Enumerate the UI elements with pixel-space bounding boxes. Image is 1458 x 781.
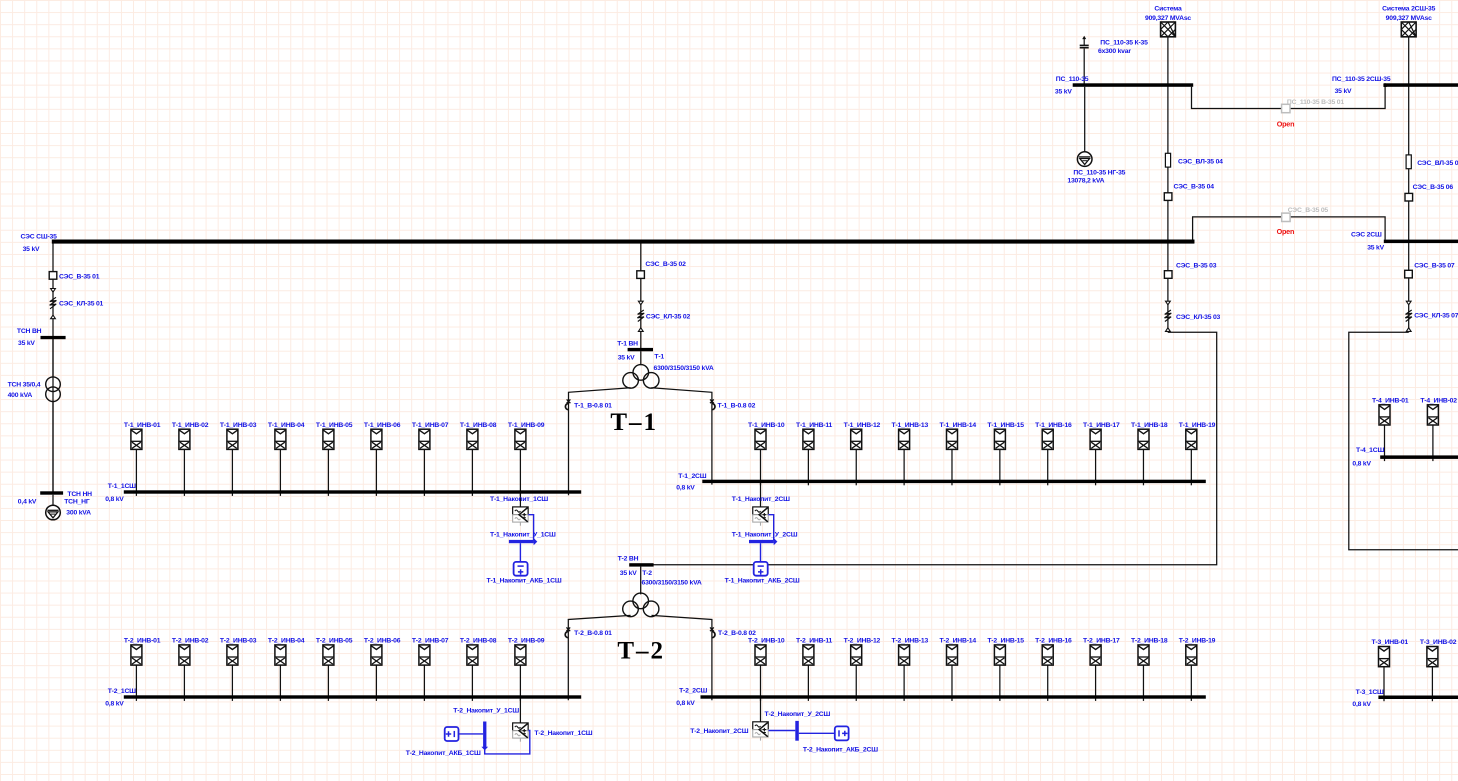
svg-text:Т-1_Накопит_1СШ: Т-1_Накопит_1СШ: [490, 496, 548, 503]
svg-text:Т-1 ВН: Т-1 ВН: [617, 340, 638, 347]
svg-text:ПС_110-35 2СШ-35: ПС_110-35 2СШ-35: [1332, 76, 1391, 83]
svg-text:СЭС_В-35 06: СЭС_В-35 06: [1413, 184, 1454, 191]
svg-text:0,8 kV: 0,8 kV: [1352, 461, 1371, 468]
svg-text:Т-2_ИНВ-08: Т-2_ИНВ-08: [460, 638, 497, 645]
svg-text:СЭС_КЛ-35 07: СЭС_КЛ-35 07: [1414, 313, 1458, 320]
svg-text:Т-1_ИНВ-17: Т-1_ИНВ-17: [1083, 422, 1120, 429]
svg-text:Т-2_ИНВ-03: Т-2_ИНВ-03: [220, 638, 257, 645]
svg-text:35 kV: 35 kV: [1335, 88, 1352, 95]
svg-text:13078,2 kVA: 13078,2 kVA: [1067, 178, 1104, 185]
svg-text:35 kV: 35 kV: [620, 570, 637, 577]
svg-text:6300/3150/3150 kVA: 6300/3150/3150 kVA: [642, 580, 702, 587]
svg-text:СЭС_КЛ-35 03: СЭС_КЛ-35 03: [1176, 314, 1221, 321]
svg-text:35 kV: 35 kV: [618, 354, 635, 361]
svg-text:Т-2_ИНВ-15: Т-2_ИНВ-15: [987, 638, 1024, 645]
svg-text:Т-1_ИНВ-05: Т-1_ИНВ-05: [316, 422, 353, 429]
svg-text:Т-1_ИНВ-13: Т-1_ИНВ-13: [892, 422, 929, 429]
svg-text:СЭС_ВЛ-35 04: СЭС_ВЛ-35 04: [1178, 159, 1223, 166]
svg-text:СЭС_В-35 05: СЭС_В-35 05: [1288, 207, 1329, 214]
svg-text:Т-2_ИНВ-13: Т-2_ИНВ-13: [892, 638, 929, 645]
svg-text:Т-2_В-0.8 01: Т-2_В-0.8 01: [574, 630, 612, 637]
svg-text:ПС_110-35 В-35 01: ПС_110-35 В-35 01: [1287, 99, 1344, 106]
svg-text:0,8 kV: 0,8 kV: [676, 700, 695, 707]
svg-text:СЭС_КЛ-35 02: СЭС_КЛ-35 02: [646, 314, 691, 321]
svg-text:СЭС_В-35 07: СЭС_В-35 07: [1414, 263, 1455, 270]
svg-text:Т-1_ИНВ-12: Т-1_ИНВ-12: [844, 422, 881, 429]
svg-text:Т-3_ИНВ-01: Т-3_ИНВ-01: [1371, 639, 1408, 646]
svg-text:Т-1_Накопит_У_2СШ: Т-1_Накопит_У_2СШ: [732, 532, 798, 539]
svg-text:909,327 MVAsc: 909,327 MVAsc: [1145, 15, 1191, 22]
svg-text:Т-2_ИНВ-10: Т-2_ИНВ-10: [748, 638, 785, 645]
svg-text:Т-2_ИНВ-01: Т-2_ИНВ-01: [124, 638, 161, 645]
svg-text:Т-2_ИНВ-14: Т-2_ИНВ-14: [939, 638, 976, 645]
svg-text:Т-2_ИНВ-05: Т-2_ИНВ-05: [316, 638, 353, 645]
svg-text:СЭС_В-35 02: СЭС_В-35 02: [645, 261, 686, 268]
svg-text:Т-1_Накопит_АКБ_2СШ: Т-1_Накопит_АКБ_2СШ: [725, 578, 800, 585]
svg-text:Т-2_Накопит_2СШ: Т-2_Накопит_2СШ: [690, 728, 748, 735]
svg-text:Т-2_ИНВ-09: Т-2_ИНВ-09: [508, 638, 545, 645]
svg-text:Т-1_В-0.8 01: Т-1_В-0.8 01: [574, 402, 612, 409]
svg-text:ПС_110-35 К-35: ПС_110-35 К-35: [1100, 40, 1148, 47]
svg-text:Т-2_2СШ: Т-2_2СШ: [679, 688, 707, 695]
svg-text:Т-1_Накопит_2СШ: Т-1_Накопит_2СШ: [732, 496, 790, 503]
svg-text:Т-1_ИНВ-02: Т-1_ИНВ-02: [172, 422, 209, 429]
svg-text:Т-2_ИНВ-11: Т-2_ИНВ-11: [796, 638, 833, 645]
svg-text:Т-1_1СШ: Т-1_1СШ: [108, 483, 136, 490]
svg-text:Т-2_ИНВ-16: Т-2_ИНВ-16: [1035, 638, 1072, 645]
svg-text:СЭС_КЛ-35 01: СЭС_КЛ-35 01: [59, 300, 104, 307]
svg-text:0,8 kV: 0,8 kV: [1352, 701, 1371, 708]
svg-text:Т-4_ИНВ-02: Т-4_ИНВ-02: [1420, 397, 1457, 404]
svg-text:Т-2_ИНВ-06: Т-2_ИНВ-06: [364, 638, 401, 645]
svg-text:Т-2_1СШ: Т-2_1СШ: [108, 688, 136, 695]
svg-text:Т-3_ИНВ-02: Т-3_ИНВ-02: [1420, 639, 1457, 646]
svg-text:Т–1: Т–1: [610, 409, 658, 436]
svg-text:0,8 kV: 0,8 kV: [105, 496, 124, 503]
svg-text:Т-2 ВН: Т-2 ВН: [618, 556, 639, 563]
svg-text:6300/3150/3150 kVA: 6300/3150/3150 kVA: [654, 365, 714, 372]
svg-text:Т-2_Накопит_АКБ_2СШ: Т-2_Накопит_АКБ_2СШ: [803, 747, 878, 754]
svg-text:Система: Система: [1154, 5, 1182, 12]
svg-text:Т-1_ИНВ-15: Т-1_ИНВ-15: [987, 422, 1024, 429]
svg-text:СЭС_В-35 04: СЭС_В-35 04: [1174, 184, 1215, 191]
svg-text:СЭС 2СШ: СЭС 2СШ: [1351, 232, 1382, 239]
svg-text:СЭС СШ-35: СЭС СШ-35: [21, 234, 58, 241]
svg-text:СЭС_В-35 03: СЭС_В-35 03: [1176, 263, 1217, 270]
svg-text:Т-1_ИНВ-01: Т-1_ИНВ-01: [124, 422, 161, 429]
svg-text:Т-2_Накопит_АКБ_1СШ: Т-2_Накопит_АКБ_1СШ: [406, 750, 481, 757]
svg-text:Т–2: Т–2: [617, 638, 665, 665]
svg-text:Т-2_ИНВ-12: Т-2_ИНВ-12: [844, 638, 881, 645]
svg-text:Т-2_ИНВ-04: Т-2_ИНВ-04: [268, 638, 305, 645]
svg-text:0,8 kV: 0,8 kV: [676, 485, 695, 492]
svg-text:Т-1_ИНВ-04: Т-1_ИНВ-04: [268, 422, 305, 429]
svg-text:Т-1_ИНВ-03: Т-1_ИНВ-03: [220, 422, 257, 429]
svg-text:Т-2_ИНВ-18: Т-2_ИНВ-18: [1131, 638, 1168, 645]
svg-text:ТСН 35/0,4: ТСН 35/0,4: [8, 381, 41, 388]
svg-text:ПС_110-35 НГ-35: ПС_110-35 НГ-35: [1073, 169, 1125, 176]
svg-text:ТСН_НГ: ТСН_НГ: [64, 499, 90, 506]
svg-text:Т-1_Накопит_У_1СШ: Т-1_Накопит_У_1СШ: [490, 532, 556, 539]
svg-text:35 kV: 35 kV: [1367, 244, 1384, 251]
svg-text:Т-1_В-0.8 02: Т-1_В-0.8 02: [718, 402, 756, 409]
svg-text:Т-1_ИНВ-11: Т-1_ИНВ-11: [796, 422, 833, 429]
svg-text:Т-1_ИНВ-19: Т-1_ИНВ-19: [1179, 422, 1216, 429]
svg-text:Open: Open: [1277, 227, 1295, 236]
svg-text:Т-1_ИНВ-14: Т-1_ИНВ-14: [939, 422, 976, 429]
svg-text:СЭС_ВЛ-35 05: СЭС_ВЛ-35 05: [1417, 160, 1458, 167]
svg-text:Т-1_ИНВ-07: Т-1_ИНВ-07: [412, 422, 449, 429]
svg-text:Т-4_1СШ: Т-4_1СШ: [1356, 447, 1384, 454]
svg-text:400 kVA: 400 kVA: [8, 392, 33, 399]
svg-text:Т-2_Накопит_У_2СШ: Т-2_Накопит_У_2СШ: [765, 711, 831, 718]
svg-text:Т-2: Т-2: [642, 570, 652, 577]
svg-text:909,327 MVAsc: 909,327 MVAsc: [1386, 15, 1432, 22]
svg-text:6x300 kvar: 6x300 kvar: [1098, 48, 1131, 55]
svg-text:35 kV: 35 kV: [1055, 88, 1072, 95]
svg-text:Т-2_Накопит_1СШ: Т-2_Накопит_1СШ: [534, 730, 592, 737]
svg-text:Т-2_Накопит_У_1СШ: Т-2_Накопит_У_1СШ: [453, 708, 519, 715]
svg-text:Т-1_ИНВ-06: Т-1_ИНВ-06: [364, 422, 401, 429]
svg-text:Система 2СШ-35: Система 2СШ-35: [1382, 5, 1435, 12]
svg-text:Т-3_1СШ: Т-3_1СШ: [1356, 689, 1384, 696]
svg-text:35 kV: 35 kV: [23, 246, 40, 253]
svg-text:ТСН ВН: ТСН ВН: [17, 328, 42, 335]
svg-text:Т-2_ИНВ-17: Т-2_ИНВ-17: [1083, 638, 1120, 645]
svg-text:Т-1_ИНВ-16: Т-1_ИНВ-16: [1035, 422, 1072, 429]
svg-text:35 kV: 35 kV: [18, 340, 35, 347]
svg-text:Т-2_В-0.8 02: Т-2_В-0.8 02: [718, 630, 756, 637]
svg-text:Т-1: Т-1: [654, 354, 664, 361]
svg-text:Т-1_2СШ: Т-1_2СШ: [678, 473, 706, 480]
svg-text:300 kVA: 300 kVA: [66, 510, 91, 517]
svg-text:Т-1_ИНВ-10: Т-1_ИНВ-10: [748, 422, 785, 429]
svg-text:СЭС_В-35 01: СЭС_В-35 01: [59, 274, 100, 281]
svg-text:Т-2_ИНВ-19: Т-2_ИНВ-19: [1179, 638, 1216, 645]
svg-text:Т-1_Накопит_АКБ_1СШ: Т-1_Накопит_АКБ_1СШ: [487, 578, 562, 585]
svg-text:Т-2_ИНВ-02: Т-2_ИНВ-02: [172, 638, 209, 645]
svg-text:ТСН НН: ТСН НН: [67, 491, 92, 498]
svg-text:Т-2_ИНВ-07: Т-2_ИНВ-07: [412, 638, 449, 645]
svg-text:0,8 kV: 0,8 kV: [105, 701, 124, 708]
svg-text:Т-1_ИНВ-08: Т-1_ИНВ-08: [460, 422, 497, 429]
svg-text:Open: Open: [1277, 119, 1295, 128]
svg-text:0,4 kV: 0,4 kV: [18, 498, 37, 505]
svg-text:Т-4_ИНВ-01: Т-4_ИНВ-01: [1372, 397, 1409, 404]
svg-text:ПС_110-35: ПС_110-35: [1056, 76, 1089, 83]
svg-text:Т-1_ИНВ-18: Т-1_ИНВ-18: [1131, 422, 1168, 429]
svg-text:Т-1_ИНВ-09: Т-1_ИНВ-09: [508, 422, 545, 429]
